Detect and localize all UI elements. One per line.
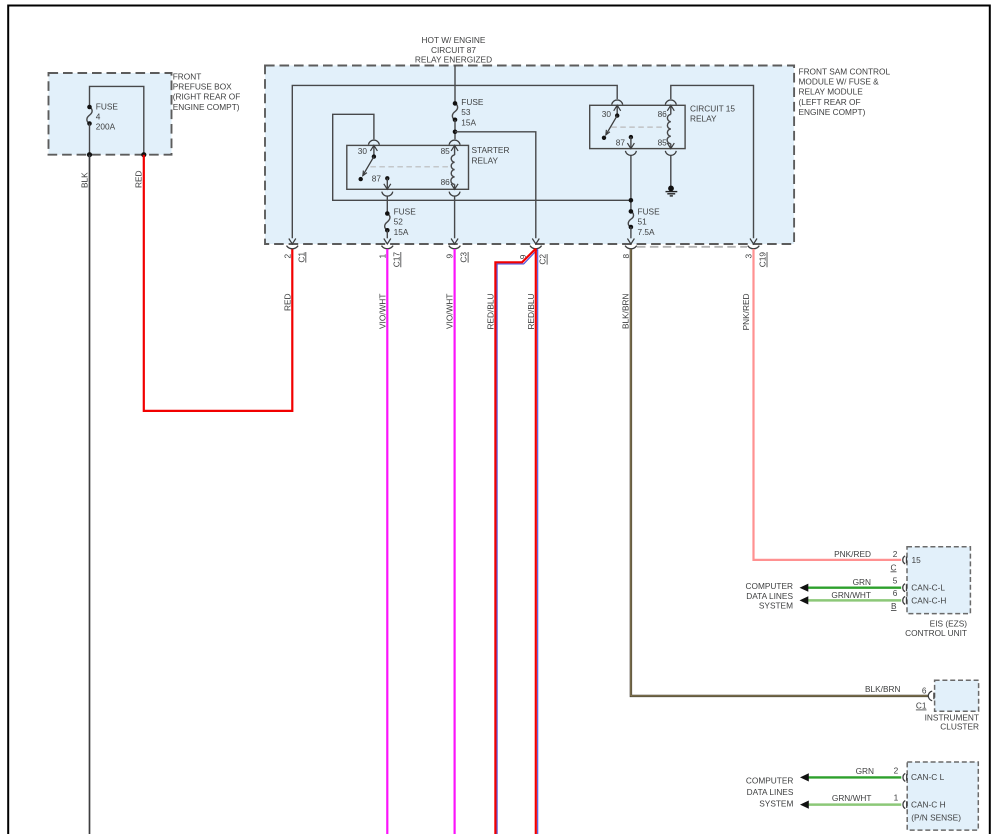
svg-text:2: 2 bbox=[893, 549, 898, 559]
P/N sense control unit box bbox=[907, 762, 978, 830]
fuse 52 (15A) bbox=[385, 214, 390, 231]
svg-text:RED/BLU: RED/BLU bbox=[526, 293, 536, 329]
svg-text:CIRCUIT 15: CIRCUIT 15 bbox=[690, 104, 735, 114]
svg-text:15: 15 bbox=[912, 555, 922, 565]
pin 2 (15) connector bbox=[903, 556, 905, 564]
junction node at prefuse box edge (RED) bbox=[141, 152, 146, 157]
pin 5 CAN-C-L connector bbox=[903, 584, 905, 592]
wire circuit15 pin85 to ground bbox=[670, 156, 672, 189]
svg-text:1: 1 bbox=[377, 254, 387, 259]
wire from fuse53 junction to C2 pin 9 bbox=[455, 132, 536, 239]
svg-text:RED: RED bbox=[134, 170, 144, 188]
svg-text:FUSE: FUSE bbox=[638, 207, 661, 217]
svg-text:2: 2 bbox=[282, 254, 292, 259]
wire fuse 52 to exit pin 1 bbox=[386, 230, 388, 238]
pin 87 connector arrow+cup bbox=[627, 143, 634, 149]
GRN wire to EIS bbox=[807, 587, 901, 589]
pin 86 connector cup+arrow bbox=[665, 100, 676, 105]
EIS control unit pins bbox=[746, 549, 968, 638]
svg-text:87: 87 bbox=[616, 138, 626, 148]
SAM exit pin 9 C2 arrow+cup bbox=[518, 239, 548, 265]
svg-text:85: 85 bbox=[658, 138, 668, 148]
RED/BLU wire pair from C2 pin 9 bbox=[485, 249, 537, 834]
svg-text:FUSE: FUSE bbox=[394, 207, 417, 217]
relay internal dashed link bbox=[611, 126, 665, 128]
pin 85 connector arrow+cup bbox=[667, 143, 674, 149]
relay coil 85-86 bbox=[451, 155, 455, 184]
svg-text:30: 30 bbox=[358, 146, 368, 156]
svg-text:RELAY MODULE: RELAY MODULE bbox=[799, 87, 864, 97]
svg-text:CAN-C H: CAN-C H bbox=[911, 799, 946, 809]
svg-text:C: C bbox=[891, 562, 897, 572]
svg-text:6: 6 bbox=[922, 685, 927, 695]
svg-text:(RIGHT REAR OF: (RIGHT REAR OF bbox=[173, 92, 241, 102]
svg-text:ENGINE COMPT): ENGINE COMPT) bbox=[173, 102, 240, 112]
GRN/WHT wire to EIS bbox=[807, 599, 901, 602]
svg-text:EIS (EZS): EIS (EZS) bbox=[930, 619, 968, 629]
pin 30 stub bbox=[373, 145, 375, 156]
svg-text:COMPUTER: COMPUTER bbox=[746, 581, 793, 591]
svg-text:GRN/WHT: GRN/WHT bbox=[832, 793, 872, 803]
VIO/WHT wire from C3 to bottom bbox=[454, 249, 456, 834]
SAM internal: feed wire to fuse 53 bbox=[454, 66, 456, 104]
svg-text:3: 3 bbox=[744, 254, 754, 259]
svg-text:VIO/WHT: VIO/WHT bbox=[377, 294, 387, 330]
svg-text:86: 86 bbox=[441, 177, 451, 187]
svg-text:BLK/BRN: BLK/BRN bbox=[865, 684, 901, 694]
svg-text:GRN: GRN bbox=[856, 766, 874, 776]
svg-text:1: 1 bbox=[894, 793, 899, 803]
fuse 53 (15A) bbox=[452, 103, 457, 119]
pin 86 stub bbox=[670, 105, 672, 114]
BLK/BRN wire from pin 8 to instrument cluster bbox=[621, 249, 929, 696]
svg-text:CONTROL UNIT: CONTROL UNIT bbox=[905, 628, 967, 638]
relay coil 86-85 bbox=[667, 114, 671, 143]
svg-text:86: 86 bbox=[658, 109, 668, 119]
svg-text:5: 5 bbox=[893, 575, 898, 585]
pin 87 stub bbox=[629, 135, 633, 139]
svg-text:GRN/WHT: GRN/WHT bbox=[831, 590, 871, 600]
svg-text:CAN-C L: CAN-C L bbox=[911, 772, 945, 782]
svg-text:200A: 200A bbox=[96, 122, 116, 132]
fuse 51 (7.5A) bbox=[628, 211, 633, 227]
svg-text:FUSE: FUSE bbox=[461, 97, 484, 107]
svg-text:9: 9 bbox=[445, 254, 455, 259]
svg-text:C17: C17 bbox=[391, 252, 401, 268]
svg-text:CAN-C-L: CAN-C-L bbox=[911, 582, 945, 592]
contact arm 30-87 bbox=[606, 116, 617, 135]
SAM exit pin 9 C3 arrow+cup bbox=[445, 239, 469, 263]
EIS control unit box bbox=[907, 547, 970, 614]
svg-text:15A: 15A bbox=[394, 227, 409, 237]
wire rail: C1 pin2 up and across to circuit15 relay pin 30 bbox=[292, 85, 617, 238]
wire circuit15 pin87 down to fuse 51 bbox=[630, 156, 632, 212]
GRN wire bbox=[808, 776, 902, 778]
svg-text:VIO/WHT: VIO/WHT bbox=[445, 294, 455, 330]
label: FRONT PREFUSE BOX title bbox=[173, 71, 241, 112]
RED wire from prefuse to C1 pin 2 bbox=[144, 155, 292, 411]
junction node below fuse 53 bbox=[453, 130, 458, 135]
wire starter pin87 to fuse 52 bbox=[386, 196, 388, 213]
connector strip under SAM module (C19 area) bbox=[637, 246, 747, 248]
front prefuse box (module) bbox=[49, 73, 172, 155]
svg-text:PNK/RED: PNK/RED bbox=[741, 294, 751, 331]
svg-text:52: 52 bbox=[394, 217, 404, 227]
relay internal dashed link bbox=[370, 166, 451, 168]
svg-text:CLUSTER: CLUSTER bbox=[940, 721, 979, 731]
svg-text:51: 51 bbox=[638, 217, 648, 227]
wire fuse53 to starter relay pin 85 bbox=[454, 120, 456, 139]
circuit 15 relay U2 bbox=[590, 100, 736, 155]
PNK/RED wire from C19 pin 3 to EIS bbox=[741, 249, 901, 560]
SAM exit pin 3 C19 arrow+cup bbox=[744, 239, 768, 268]
svg-text:85: 85 bbox=[441, 146, 451, 156]
svg-text:(P/N SENSE): (P/N SENSE) bbox=[911, 813, 961, 823]
pin 85 stub bbox=[670, 144, 672, 149]
prefuse box internal wires bbox=[90, 86, 144, 154]
svg-text:PREFUSE BOX: PREFUSE BOX bbox=[173, 82, 232, 92]
pin 85 connector cup+arrow bbox=[449, 140, 460, 145]
GRN/WHT wire bbox=[808, 803, 902, 806]
SAM exit pin 1 C17 arrow+cup bbox=[377, 239, 401, 268]
svg-text:RELAY ENERGIZED: RELAY ENERGIZED bbox=[415, 55, 492, 65]
instrument cluster box bbox=[935, 680, 979, 711]
pin 86 connector arrow+cup bbox=[451, 184, 458, 190]
svg-text:RELAY: RELAY bbox=[690, 114, 717, 124]
pin 2 CAN-C L connector bbox=[903, 773, 905, 781]
svg-text:C1: C1 bbox=[296, 252, 306, 263]
svg-text:4: 4 bbox=[96, 112, 101, 122]
svg-text:CAN-C-H: CAN-C-H bbox=[911, 596, 946, 606]
svg-text:PNK/RED: PNK/RED bbox=[834, 549, 871, 559]
junction node at prefuse box edge (BLK) bbox=[87, 152, 92, 157]
pin 6 CAN-C-H connector bbox=[903, 596, 905, 604]
wire: circuit15 pin86 across to C19 pin 3 bbox=[671, 85, 754, 238]
svg-text:(LEFT REAR OF: (LEFT REAR OF bbox=[799, 97, 861, 107]
svg-text:CIRCUIT 87: CIRCUIT 87 bbox=[431, 45, 476, 55]
pin 1 CAN-C H connector bbox=[903, 801, 905, 809]
svg-text:C19: C19 bbox=[758, 252, 768, 268]
VIO/WHT wire from C17 to bottom bbox=[386, 249, 388, 834]
svg-text:53: 53 bbox=[461, 107, 471, 117]
svg-text:RED: RED bbox=[282, 294, 292, 312]
contact arm 30-87 bbox=[363, 157, 374, 176]
pin 87 connector arrow+cup bbox=[384, 184, 391, 190]
P/N sense unit pins bbox=[746, 766, 961, 823]
svg-text:C2: C2 bbox=[538, 254, 548, 265]
svg-text:FUSE: FUSE bbox=[96, 101, 119, 111]
svg-text:SYSTEM: SYSTEM bbox=[759, 601, 793, 611]
instrument cluster pin bbox=[865, 684, 979, 731]
wire: starter relay pin30 loop to fuse 51 junction bbox=[333, 114, 631, 200]
svg-text:RED/BLU: RED/BLU bbox=[485, 293, 495, 329]
svg-text:HOT W/ ENGINE: HOT W/ ENGINE bbox=[422, 35, 486, 45]
svg-text:COMPUTER: COMPUTER bbox=[746, 775, 793, 785]
wire starter pin86 to exit pin 9 C3 bbox=[454, 196, 456, 238]
pin 30 connector cup+arrow bbox=[612, 100, 623, 105]
label: HOT W/ ENGINE note bbox=[415, 35, 492, 65]
junction node fuse51/pin30 rail bbox=[629, 198, 634, 203]
svg-text:FRONT: FRONT bbox=[173, 71, 202, 81]
svg-text:15A: 15A bbox=[461, 117, 476, 127]
svg-text:8: 8 bbox=[621, 254, 631, 259]
svg-text:87: 87 bbox=[372, 173, 382, 183]
svg-text:GRN: GRN bbox=[853, 577, 871, 587]
SAM exit pin 8 arrow+cup bbox=[621, 239, 637, 259]
pin 85 stub bbox=[454, 145, 456, 155]
pin 86 stub bbox=[454, 184, 456, 189]
svg-text:C3: C3 bbox=[459, 252, 469, 263]
svg-text:FRONT SAM CONTROL: FRONT SAM CONTROL bbox=[799, 67, 891, 77]
ground G1 bbox=[666, 186, 678, 196]
svg-text:STARTER: STARTER bbox=[472, 145, 510, 155]
front SAM control module box bbox=[265, 66, 794, 245]
svg-text:MODULE W/ FUSE &: MODULE W/ FUSE & bbox=[799, 77, 880, 87]
svg-text:SYSTEM: SYSTEM bbox=[759, 798, 793, 808]
pin 30 connector cup+arrow bbox=[368, 140, 379, 145]
svg-text:7.5A: 7.5A bbox=[638, 227, 656, 237]
svg-text:BLK: BLK bbox=[79, 172, 89, 188]
svg-text:DATA LINES: DATA LINES bbox=[746, 591, 793, 601]
label: FRONT SAM CONTROL MODULE title bbox=[799, 67, 891, 117]
BLK wire to bottom bbox=[89, 155, 91, 834]
pin 87 stub bbox=[385, 176, 389, 180]
svg-text:30: 30 bbox=[602, 109, 612, 119]
svg-text:DATA LINES: DATA LINES bbox=[747, 787, 794, 797]
svg-text:C1: C1 bbox=[916, 701, 927, 711]
wire from fuse 4 to box edge bbox=[89, 124, 91, 155]
starter relay U1 bbox=[347, 140, 510, 196]
svg-text:ENGINE COMPT): ENGINE COMPT) bbox=[799, 107, 866, 117]
svg-text:6: 6 bbox=[893, 588, 898, 598]
svg-text:B: B bbox=[891, 601, 897, 611]
pin 30 stub bbox=[616, 105, 618, 115]
fuse 4 (200A) bbox=[87, 107, 92, 124]
wire fuse 51 to exit pin 8 bbox=[630, 227, 632, 238]
svg-text:BLK/BRN: BLK/BRN bbox=[621, 294, 631, 330]
svg-text:RELAY: RELAY bbox=[472, 155, 499, 165]
svg-text:2: 2 bbox=[894, 766, 899, 776]
SAM exit pin 2 C1 arrow+cup bbox=[282, 239, 306, 263]
